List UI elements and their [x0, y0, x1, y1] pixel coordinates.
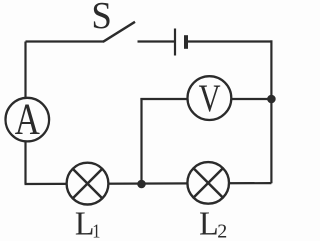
lamp L1 cross [73, 169, 103, 199]
voltmeter V1 circle [188, 76, 232, 120]
svg-text:V: V [199, 76, 221, 119]
svg-text:1: 1 [92, 220, 100, 241]
svg-text:L: L [75, 206, 95, 241]
wire voltmeter branch vertical [140, 98, 142, 184]
battery long plate [174, 29, 176, 56]
lamp L2 circle [187, 162, 229, 204]
svg-text:S: S [91, 0, 111, 37]
wire left vertical [24, 42, 26, 185]
junction node dot (right) [267, 95, 276, 104]
wire switch contact to battery [138, 40, 175, 42]
battery short thick plate [184, 35, 188, 49]
wire bottom [25, 182, 272, 185]
lamp L1 circle [67, 163, 109, 205]
svg-text:2: 2 [217, 221, 227, 241]
lamp L2 cross [194, 168, 223, 197]
junction node dot (middle bottom) [137, 180, 146, 189]
wire battery to top-right corner [187, 40, 273, 42]
wire right vertical [270, 40, 272, 183]
ammeter A1 circle [6, 98, 50, 142]
switch S blade [103, 22, 135, 42]
wire voltmeter branch horizontal [140, 98, 271, 100]
svg-text:A: A [15, 95, 40, 144]
wire top-left segment [26, 40, 105, 42]
svg-text:L: L [199, 206, 219, 241]
